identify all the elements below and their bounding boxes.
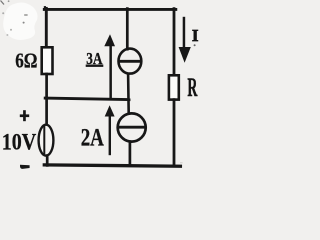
svg-text:10V: 10V [2,129,37,154]
svg-text:R: R [187,73,197,102]
svg-text:3A: 3A [86,49,102,68]
svg-text:6Ω: 6Ω [15,49,37,73]
svg-text:I: I [192,26,199,45]
svg-text:2A: 2A [81,125,104,152]
